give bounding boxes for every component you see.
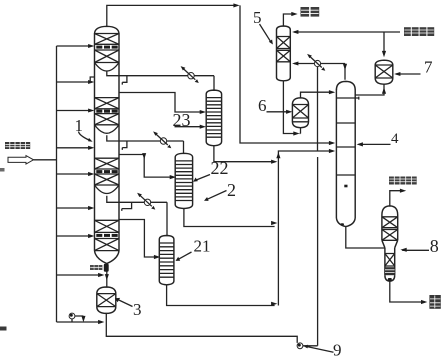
svg-text:8: 8 xyxy=(430,236,439,256)
exchanger E21 xyxy=(159,236,174,285)
label 6 with leader xyxy=(258,96,292,115)
node: scan artifact left-middle xyxy=(0,168,5,172)
label 8 with leader xyxy=(400,236,438,256)
column C1 (tower 1) shell xyxy=(95,26,120,263)
wire: C1 gap1 liquid line into exchanger23 side xyxy=(119,93,206,115)
svg-text:4: 4 xyxy=(391,131,399,147)
label 4 with leader xyxy=(357,131,399,147)
wire: vessel3 bottom line to pump9 xyxy=(106,313,297,343)
node: label 原料乙苯 xyxy=(404,27,434,36)
wire: C1 gap1 vapor line to valve V1 and exchanger23 top xyxy=(119,76,214,90)
label 23 with leader arrow xyxy=(173,110,207,130)
wire: C1 gap2 liquid line into exchanger22 side xyxy=(119,153,176,179)
wire: loop branch into column1 gap y208 xyxy=(57,206,95,210)
wire: raw ethylbenzene line into column5 top xyxy=(292,30,400,34)
column C1 segment2 internals xyxy=(95,98,120,141)
wire: vessel8 overhead product line xyxy=(390,189,406,206)
node: scan artifact bottom-left xyxy=(0,327,7,331)
label 2 with leader xyxy=(204,180,236,201)
wire: column5 bottoms to vessel6 bottom xyxy=(283,81,300,136)
wire: ethylbenzene branch down into vessel7 xyxy=(382,32,386,57)
column C1 bottom stem with black trap xyxy=(104,264,109,287)
wire: column4 bottoms to vessel8 xyxy=(346,227,385,248)
column C1 segment3 internals xyxy=(95,158,120,202)
vessel V8 (finishing column 8) xyxy=(382,206,398,282)
vessel V3tank (stripper 3) xyxy=(97,287,116,313)
label 9 with leader xyxy=(303,341,342,360)
wire: C1 gap3 liquid line into exchanger21 side xyxy=(119,220,160,260)
wire: exchanger23 bottoms to collector xyxy=(214,146,278,164)
wire: vessel8 bottoms residue line xyxy=(390,281,428,304)
vessel V7 xyxy=(375,60,393,84)
exchanger E22 xyxy=(175,153,192,208)
wire: riser upper segment from valve V4 (crossing break) xyxy=(317,67,319,151)
wire: loop branch into column1 gap y147.8 xyxy=(57,146,95,150)
column C1 left nozzle stub xyxy=(90,77,94,83)
wire: collector vertical riser to column4 feed y151 xyxy=(276,149,335,306)
wire: C1 gap2 vapor line to valve V2 and exchanger22 top xyxy=(119,141,184,154)
wire: loop branch into column1 bottom stem y275 xyxy=(57,273,105,277)
column C1 segment1 internals xyxy=(95,34,120,76)
wire: vessel6 bottom stem xyxy=(300,128,302,134)
wire: vessel6 overhead to column4 feed xyxy=(301,90,336,98)
svg-text:9: 9 xyxy=(333,341,342,360)
label 3 with leader xyxy=(115,298,142,319)
svg-text:21: 21 xyxy=(194,237,211,256)
valve V1 xyxy=(181,66,199,83)
node: tiny chinese text left of trap xyxy=(90,265,102,270)
wire: loop branch into column1 band y236 xyxy=(57,234,95,238)
valve V4 and wire into column5 lower xyxy=(292,54,347,80)
wire: loop branch into column1 top band y46 xyxy=(57,44,95,48)
label 21 with leader xyxy=(176,237,211,261)
wire: loop branch into column1 band y110.5 xyxy=(57,109,95,113)
wire: column1 overhead to top header xyxy=(107,3,240,26)
label 5 with leader xyxy=(253,8,273,45)
column C1 segment4 internals xyxy=(95,220,120,250)
wire: exchanger21 bottoms to collector xyxy=(167,285,278,306)
label 1 with leader xyxy=(75,116,93,142)
wire: C1 gap3 vapor line to valve V3 and exchanger21 top xyxy=(119,202,167,236)
pump P0 (small circulation pump on bottom loop line) xyxy=(69,313,85,322)
vessel V6 xyxy=(292,98,308,128)
svg-text:6: 6 xyxy=(258,96,267,115)
column C5 (absorber 5) xyxy=(277,26,291,81)
wire: loop branch into column1 gap y82 xyxy=(57,80,95,84)
wire: column5 tail gas outlet xyxy=(283,12,297,26)
wire: exchanger22 bottoms to collector xyxy=(184,209,278,227)
wire: loop branch into column1 band y174 xyxy=(57,172,95,176)
valve V3 xyxy=(137,193,155,210)
wire: left recycle loop vertical xyxy=(56,46,58,322)
label 22 with leader xyxy=(193,158,228,182)
wire: pump9 discharge riser to column4 feed xyxy=(303,157,318,346)
node: label 残液 xyxy=(429,295,440,309)
svg-text:3: 3 xyxy=(133,300,142,319)
label 7 with leader xyxy=(394,58,433,77)
valve V2 xyxy=(153,131,171,148)
wire: loop bottom line to vessel3 feed stem y322 xyxy=(57,320,105,324)
column C4 (tall column 4) xyxy=(336,81,358,226)
wire: top header down-comer x240 and feed into column4 upper xyxy=(240,5,335,145)
svg-text:22: 22 xyxy=(211,158,229,178)
svg-text:7: 7 xyxy=(424,58,433,77)
node: label 尾气 xyxy=(301,7,320,17)
wire: raw feed hollow arrow into left loop xyxy=(8,156,57,164)
svg-text:2: 2 xyxy=(227,180,236,200)
node: feed label 原料异丁烯 (simulated glyph blocks) xyxy=(5,142,30,149)
exchanger E23 xyxy=(206,90,221,146)
node: label 叔丁基乙苯 xyxy=(389,177,417,185)
wire: vessel7 bottom connection to column4 xyxy=(355,84,386,95)
pump P9 xyxy=(297,343,303,349)
